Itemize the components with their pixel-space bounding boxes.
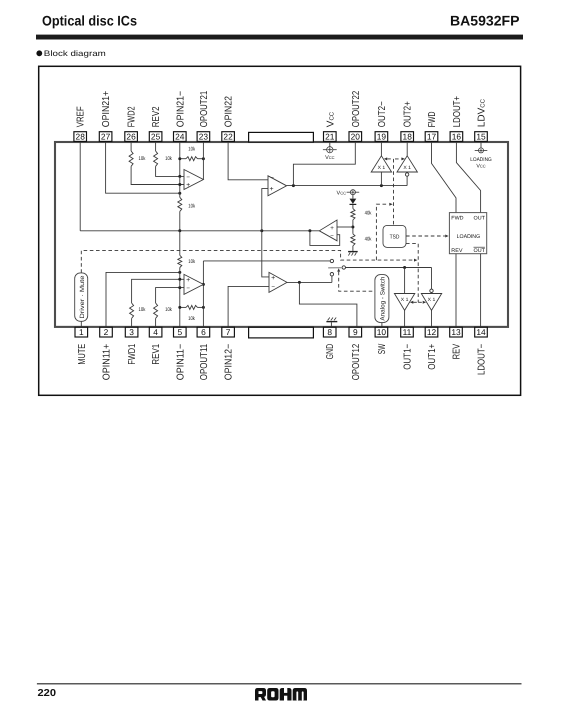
label Vcc diode branch xyxy=(337,190,347,196)
label R8 10k xyxy=(188,259,195,265)
label LOADING REV port xyxy=(451,248,463,254)
svg-text:−: − xyxy=(330,234,334,240)
svg-text:REV: REV xyxy=(451,248,463,254)
op-amp U4 (VREF buffer) xyxy=(319,220,337,241)
wire switch pole rail xyxy=(346,267,432,269)
buffer B3 X1 (OUT1-) xyxy=(394,294,414,311)
resistor R8 10k bias lower xyxy=(178,255,182,267)
node junction X1 left input xyxy=(380,184,383,187)
label R7 10k xyxy=(188,316,195,322)
svg-text:20: 20 xyxy=(351,131,361,141)
label B4 X1 xyxy=(428,297,436,303)
node junction U5 output xyxy=(298,281,301,284)
wire divider to U4 plus xyxy=(337,226,353,228)
pin 20 xyxy=(349,90,362,141)
wire U5 output rail xyxy=(287,281,332,283)
wire pin8 GND stub xyxy=(330,322,332,328)
svg-text:+: + xyxy=(271,275,275,282)
svg-text:FWD: FWD xyxy=(427,112,438,128)
diode D1 xyxy=(350,199,357,205)
pin 1 xyxy=(75,327,88,365)
op-amp U1 xyxy=(184,170,203,190)
svg-text:−: − xyxy=(186,285,190,292)
wire B3 to pin11 xyxy=(404,310,406,327)
dashed control into B1 xyxy=(384,157,392,160)
node junction pin27 plus node xyxy=(178,192,181,195)
wire R6 to U2 minus input xyxy=(156,288,184,303)
label R6 10k xyxy=(165,307,172,313)
wire pin6 OPOUT11 output vertical xyxy=(202,261,204,328)
svg-text:TSD: TSD xyxy=(390,234,400,240)
label Analog-Switch xyxy=(379,276,386,321)
pin 27 xyxy=(99,91,112,142)
wire U4 feedback xyxy=(310,231,340,246)
dashed control into B3 xyxy=(410,301,418,304)
svg-text:OUT1+: OUT1+ xyxy=(427,344,438,370)
wire pin17 FWD slant to LOADING xyxy=(432,141,457,212)
svg-text:X 1: X 1 xyxy=(378,165,386,171)
block Analog-Switch xyxy=(375,275,389,323)
wire pin7 OPIN12- to U5 minus xyxy=(228,286,269,328)
wire to B3 input xyxy=(404,268,406,294)
arrow switch control up xyxy=(337,268,340,271)
unused pin box bottom xyxy=(249,327,314,338)
svg-text:OUT2+: OUT2+ xyxy=(403,101,414,127)
svg-text:27: 27 xyxy=(101,131,111,141)
label R1 10k xyxy=(139,156,146,162)
wire pin24 OPIN21- vertical xyxy=(179,141,181,176)
svg-text:+: + xyxy=(186,277,190,284)
node junction R7 right xyxy=(202,306,205,309)
svg-text:10: 10 xyxy=(377,327,387,337)
svg-text:REV1: REV1 xyxy=(151,343,162,364)
resistor R10 40k xyxy=(351,234,355,246)
svg-text:−: − xyxy=(270,174,274,181)
wire Driver-Mute to pin1 xyxy=(80,321,82,328)
svg-text:MUTE: MUTE xyxy=(77,344,88,365)
label B3 X1 xyxy=(401,297,409,303)
svg-text:25: 25 xyxy=(151,131,161,141)
svg-text:BA5932FP: BA5932FP xyxy=(450,13,520,29)
dashed TSD lower port xyxy=(406,244,418,303)
label R3 10k xyxy=(188,146,195,152)
node junction VREF bias xyxy=(178,229,181,232)
IC body outline xyxy=(55,142,508,327)
svg-text:OPOUT21: OPOUT21 xyxy=(199,90,210,127)
wire U2 output to switch contact xyxy=(203,260,330,262)
wire U5 plus to VREF xyxy=(262,231,269,277)
svg-text:OPOUT22: OPOUT22 xyxy=(351,90,362,127)
label R9 40k xyxy=(365,211,372,217)
node junction divider xyxy=(351,226,354,229)
svg-text:10k: 10k xyxy=(165,307,172,313)
svg-text:LOADING: LOADING xyxy=(470,157,492,163)
label R2 10k xyxy=(165,156,172,162)
unused pin box top xyxy=(249,132,314,142)
node junction R3 left xyxy=(178,157,181,160)
wire LOADING REV to pin13 xyxy=(455,254,457,328)
wire pin22 OPIN22 to U3 minus xyxy=(228,141,268,180)
wire D1 to R9 xyxy=(352,205,354,209)
svg-text:10k: 10k xyxy=(139,307,146,313)
svg-text:Analog - Switch: Analog - Switch xyxy=(379,276,386,321)
label U1 minus xyxy=(186,174,190,181)
block TSD xyxy=(383,225,406,247)
wire output to switch contact C xyxy=(331,276,333,283)
svg-text:SW: SW xyxy=(377,343,388,354)
pin 11 xyxy=(401,327,414,370)
svg-text:FWD2: FWD2 xyxy=(127,106,138,127)
wire B4 to pin12 xyxy=(431,310,433,327)
svg-text:10k: 10k xyxy=(139,156,146,162)
label U2 plus xyxy=(186,277,190,284)
svg-text:OPOUT11: OPOUT11 xyxy=(199,343,210,380)
switch pole B xyxy=(342,266,345,269)
svg-text:24: 24 xyxy=(175,131,185,141)
pin 9 xyxy=(349,327,362,380)
label U4 minus xyxy=(330,234,334,240)
pin 13 xyxy=(450,327,463,359)
pin 2 xyxy=(100,327,113,380)
label R10 40k xyxy=(365,237,372,243)
svg-text:OPIN11+: OPIN11+ xyxy=(102,344,113,381)
svg-text:+: + xyxy=(186,182,190,189)
svg-text:5: 5 xyxy=(177,327,182,337)
svg-text:8: 8 xyxy=(327,327,332,337)
label LOADING Vcc xyxy=(470,157,492,170)
ground G2 (pin8) xyxy=(326,318,337,323)
svg-text:10k: 10k xyxy=(188,316,195,322)
node junction VREF opamp column xyxy=(260,229,263,232)
svg-text:10k: 10k xyxy=(188,259,195,265)
node junction plus line U2 xyxy=(178,278,181,281)
resistor R9 40k xyxy=(351,209,355,220)
node junction pin2 plus node xyxy=(178,271,181,274)
svg-text:3: 3 xyxy=(129,327,134,337)
wire pin18 to B2 apex xyxy=(406,141,408,156)
inverting bubble B4 xyxy=(430,289,433,292)
svg-text:X 1: X 1 xyxy=(428,297,436,303)
op-amp U3 xyxy=(268,176,287,196)
wire Analog-Switch to pin10 SW xyxy=(381,323,383,328)
block Driver-Mute xyxy=(75,273,88,321)
svg-text:10k: 10k xyxy=(165,156,172,162)
wire R2 to U1 minus input xyxy=(156,166,184,176)
footer rule xyxy=(37,683,522,685)
section heading Block diagram xyxy=(36,49,106,58)
svg-text:26: 26 xyxy=(126,131,136,141)
svg-text:11: 11 xyxy=(403,327,412,337)
svg-text:OUT: OUT xyxy=(474,215,486,221)
label U5 plus xyxy=(271,275,275,282)
pin 28 xyxy=(74,106,87,141)
resistor R5 10k (FWD1 input) xyxy=(130,303,134,318)
svg-text:Optical disc ICs: Optical disc ICs xyxy=(42,13,137,29)
resistor R4 10k bias upper xyxy=(178,197,182,211)
wire R1 to U1 plus input xyxy=(131,166,184,184)
pin 23 xyxy=(197,90,210,141)
pin 16 xyxy=(450,96,463,142)
svg-text:2: 2 xyxy=(104,327,109,337)
svg-text:18: 18 xyxy=(403,131,413,141)
op-amp U5 xyxy=(269,272,287,292)
node junction pin24 minus line xyxy=(178,175,181,178)
diagram outer frame xyxy=(39,66,521,395)
power symbol Vcc diode branch xyxy=(347,190,360,195)
wire plus node vertical xyxy=(179,176,181,197)
node junction R7 left xyxy=(178,306,181,309)
svg-text:12: 12 xyxy=(427,327,437,337)
svg-text:FWD: FWD xyxy=(451,215,463,221)
svg-text:REV2: REV2 xyxy=(151,106,162,127)
arrow mute rail into TSD column xyxy=(414,259,417,262)
op-amp U2 xyxy=(184,274,203,294)
dashed control into B4 xyxy=(418,301,426,304)
svg-text:19: 19 xyxy=(377,131,387,141)
svg-text:LOADING: LOADING xyxy=(457,234,481,240)
node junction U3 output xyxy=(292,184,295,187)
resistor R2 10k (REV2 input) xyxy=(154,151,158,166)
pin 26 xyxy=(125,106,138,141)
resistor R6 10k (REV1 input) xyxy=(154,303,158,318)
dashed mute rail from driver box xyxy=(81,250,413,273)
wire X1 left input vertical xyxy=(380,172,382,186)
svg-text:VREF: VREF xyxy=(76,106,87,127)
svg-text:14: 14 xyxy=(476,327,486,337)
node junction U2 output xyxy=(202,283,205,286)
pin 6 xyxy=(197,327,210,380)
label U5 minus xyxy=(271,283,275,290)
svg-text:−: − xyxy=(186,174,190,181)
svg-text:4: 4 xyxy=(153,327,158,337)
svg-text:40k: 40k xyxy=(365,237,372,243)
buffer B4 X1 (OUT1+) xyxy=(421,294,441,311)
wire to B4 input xyxy=(431,268,433,290)
ROHM logo xyxy=(255,688,307,701)
wire pin28 VREF vertical xyxy=(79,141,81,231)
label TSD xyxy=(390,234,400,240)
label Vcc pin21 xyxy=(325,155,335,161)
switch contact C xyxy=(330,273,333,276)
pin 15 xyxy=(475,98,488,141)
label U4 plus xyxy=(330,225,334,232)
wire pin2 OPIN11+ to plus node xyxy=(106,272,180,328)
svg-text:10k: 10k xyxy=(188,204,195,210)
svg-text:9: 9 xyxy=(353,327,358,337)
buffer B1 X1 (OUT2-) xyxy=(371,156,391,172)
svg-text:7: 7 xyxy=(226,327,231,337)
dashed branch to upper X1 xyxy=(376,204,388,260)
svg-text:40k: 40k xyxy=(365,211,372,217)
svg-text:17: 17 xyxy=(427,131,437,141)
buffer B2 X1 (OUT2+) xyxy=(397,156,417,172)
pin 25 xyxy=(149,106,162,141)
svg-text:X 1: X 1 xyxy=(401,297,409,303)
wire pin23 OPOUT21 output vertical xyxy=(202,141,204,179)
svg-text:1: 1 xyxy=(79,327,84,337)
pin 12 xyxy=(425,327,438,370)
page title right part number xyxy=(450,13,520,29)
svg-text:Driver · Mute: Driver · Mute xyxy=(79,275,86,319)
node junction plus line U1 xyxy=(178,183,181,186)
dashed control into B2 xyxy=(395,157,405,160)
label U2 minus xyxy=(186,285,190,292)
wire R4 to VREF rail xyxy=(179,211,181,230)
label LOADING OUT port xyxy=(474,215,486,221)
node junction pin5 minus line xyxy=(178,286,181,289)
wire pin5 OPIN11- vertical xyxy=(179,288,181,328)
wire pin27 OPIN21+ to plus node xyxy=(106,141,180,193)
switch lever xyxy=(328,267,342,269)
wire X1 right input vertical xyxy=(406,176,408,185)
wire pin16 LDOUT+ slant to LOADING xyxy=(456,141,480,212)
switch contact A xyxy=(330,259,333,262)
label U1 plus xyxy=(186,182,190,189)
svg-text:13: 13 xyxy=(451,327,461,337)
dashed switch control xyxy=(339,272,375,292)
svg-text:28: 28 xyxy=(76,131,86,141)
svg-text:OUT1−: OUT1− xyxy=(403,344,414,370)
svg-text:Block diagram: Block diagram xyxy=(44,49,106,58)
wire plus node vertical lower xyxy=(179,268,181,288)
label Driver-Mute xyxy=(79,275,86,319)
pin 17 xyxy=(425,112,438,142)
pin 18 xyxy=(401,101,414,141)
pin 5 xyxy=(174,327,187,380)
header rule bar xyxy=(36,35,523,40)
wire R8 to VREF rail xyxy=(179,231,181,256)
svg-text:16: 16 xyxy=(452,131,462,141)
wire Vcc to diode D1 xyxy=(352,195,354,199)
svg-text:6: 6 xyxy=(201,327,206,337)
wire U5 output to pin9 OPOUT12 xyxy=(299,282,357,328)
resistor R7 10k feedback U2 xyxy=(180,305,204,309)
wire U3 output rail xyxy=(287,185,408,187)
block LOADING xyxy=(449,213,486,254)
svg-text:OUT: OUT xyxy=(474,248,486,254)
svg-text:23: 23 xyxy=(199,131,209,141)
svg-text:22: 22 xyxy=(223,131,233,141)
inverting bubble B2 xyxy=(405,173,408,176)
power symbol Vcc pin21 xyxy=(323,141,337,152)
svg-text:GND: GND xyxy=(325,344,336,360)
pin 8 xyxy=(323,327,336,359)
ground G1 xyxy=(348,251,358,256)
wire U3 plus to VREF xyxy=(262,189,268,231)
svg-text:10k: 10k xyxy=(188,146,195,152)
pin 14 xyxy=(475,327,488,375)
wire U3 output to pin20 OPOUT22 xyxy=(293,141,355,185)
pin 7 xyxy=(222,327,235,380)
label B2 X1 xyxy=(403,165,411,171)
svg-text:15: 15 xyxy=(476,131,486,141)
svg-text:LDOUT+: LDOUT+ xyxy=(452,96,463,127)
svg-text:OPIN12−: OPIN12− xyxy=(224,344,235,381)
svg-text:OPIN22: OPIN22 xyxy=(224,96,235,128)
resistor R1 10k (FWD2 input) xyxy=(129,151,133,166)
svg-text:220: 220 xyxy=(38,688,57,699)
svg-text:OUT2−: OUT2− xyxy=(377,101,388,127)
wire LOADING OUTbar to pin14 xyxy=(480,254,482,328)
node junction lower X1 left xyxy=(403,266,406,269)
wire VREF rail horizontal xyxy=(80,230,319,232)
label B1 X1 xyxy=(378,165,386,171)
wire pin3 to resistor R5 xyxy=(131,318,133,327)
wire pin26 to resistor R1 xyxy=(130,142,132,151)
pin 3 xyxy=(125,327,138,365)
svg-text:21: 21 xyxy=(325,131,335,141)
node junction VREF feedback U4 xyxy=(308,229,311,232)
svg-text:X 1: X 1 xyxy=(403,165,411,171)
page title left xyxy=(42,13,137,29)
dashed TSD to LOADING xyxy=(406,235,449,238)
wire R9 to node xyxy=(352,220,354,234)
svg-text:OPIN21−: OPIN21− xyxy=(175,91,186,128)
svg-text:OPOUT12: OPOUT12 xyxy=(351,343,362,380)
wire pin19 to B1 apex xyxy=(380,141,382,156)
resistor R3 10k feedback U1 xyxy=(180,157,204,161)
node junction R3 right output xyxy=(202,157,205,160)
footer page number xyxy=(38,688,57,699)
pin 4 xyxy=(149,327,162,365)
label R5 10k xyxy=(139,307,146,313)
svg-text:OPIN11−: OPIN11− xyxy=(175,344,186,381)
label LOADING OUTbar port xyxy=(474,247,486,254)
wire R5 to U2 plus input xyxy=(132,279,184,303)
label U3 plus xyxy=(270,186,274,193)
label LOADING center xyxy=(457,234,481,240)
pin 10 xyxy=(375,327,388,354)
svg-text:−: − xyxy=(271,283,275,290)
wire pin4 to resistor R6 xyxy=(155,318,157,327)
svg-text:+: + xyxy=(330,225,334,232)
svg-text:OPIN21+: OPIN21+ xyxy=(101,91,112,128)
pin 24 xyxy=(174,91,187,142)
pin 21 xyxy=(324,111,337,141)
svg-text:REV: REV xyxy=(452,344,463,360)
svg-text:+: + xyxy=(270,186,274,193)
svg-text:LDOUT−: LDOUT− xyxy=(477,344,488,375)
label U3 minus xyxy=(270,174,274,181)
label LOADING FWD port xyxy=(451,215,463,221)
label R4 10k xyxy=(188,204,195,210)
power symbol LOADING Vcc pin15 xyxy=(475,141,488,153)
pin 19 xyxy=(375,101,388,141)
wire R10 to ground xyxy=(352,246,354,251)
arrow branch into X1 column xyxy=(389,203,392,206)
pin 22 xyxy=(222,96,235,142)
wire pin25 to resistor R2 xyxy=(155,142,157,151)
dashed control vertical to TSD xyxy=(393,159,395,226)
svg-text:FWD1: FWD1 xyxy=(127,343,138,364)
